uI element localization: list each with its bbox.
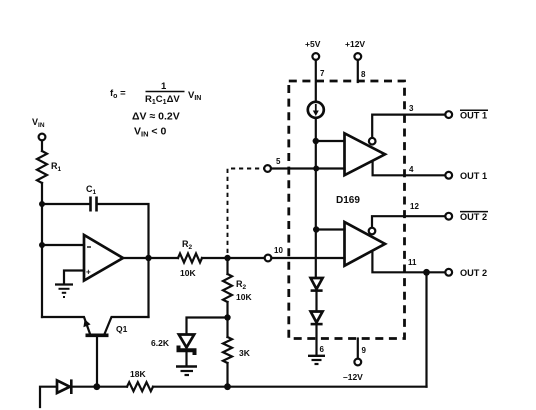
terminal OUT1bar <box>445 111 452 118</box>
wire to comp B input <box>316 228 344 230</box>
wire pin9 <box>357 339 359 359</box>
wire rail right <box>153 386 427 388</box>
wire between diodes <box>315 291 317 312</box>
svg-text:+: + <box>86 268 91 277</box>
wire diode to 18K <box>73 386 128 388</box>
node zener tap <box>224 314 230 320</box>
svg-text:8: 8 <box>361 70 366 79</box>
wire left rail down <box>41 183 43 317</box>
wire pin4 out <box>373 163 446 176</box>
wire C1 left <box>42 203 89 205</box>
resistor R1 <box>37 151 47 183</box>
terminal +12V <box>354 53 361 60</box>
diode D3 <box>311 278 323 289</box>
svg-text:VIN < 0: VIN < 0 <box>134 126 166 139</box>
node 3K on rail <box>224 383 231 390</box>
zener D2 6.2K <box>179 335 194 348</box>
wire node down to R2 vertical <box>226 258 228 274</box>
node Q1 base on rail <box>93 383 100 390</box>
wire output down to collector <box>147 258 149 317</box>
svg-text:5: 5 <box>276 157 281 166</box>
wire 3K to bottom rail <box>226 363 228 387</box>
wire VIN to R1 <box>41 140 43 151</box>
resistor R3 3K <box>223 337 232 363</box>
wire bottom rail <box>40 387 56 407</box>
svg-text:OUT 1: OUT 1 <box>460 111 487 121</box>
wire C1 right to feedback corner <box>99 204 149 255</box>
comparator U2B <box>345 222 386 266</box>
op-amp U1 <box>84 235 123 281</box>
current source I1 <box>308 102 324 118</box>
terminal 10 <box>265 255 272 262</box>
svg-text:7: 7 <box>320 69 325 78</box>
wire pin5 into box <box>271 167 345 169</box>
svg-text:OUT 2: OUT 2 <box>460 268 487 278</box>
wire to zener <box>187 318 228 334</box>
svg-text:3: 3 <box>409 104 414 113</box>
resistor R2 vertical <box>223 274 232 302</box>
terminal OUT2 <box>445 269 452 276</box>
wire +12V pin 8 <box>357 60 359 82</box>
node comparator A plus <box>313 138 319 144</box>
bubble U2B <box>369 228 376 235</box>
node comparator B plus <box>313 226 319 232</box>
svg-text:1: 1 <box>161 81 167 92</box>
node pin5 line crossing <box>313 166 319 172</box>
comparator U2A <box>345 133 386 175</box>
terminal VIN <box>39 134 46 141</box>
transistor Q1 emitter arrow <box>83 319 90 327</box>
svg-text:OUT 2: OUT 2 <box>460 212 487 222</box>
node C1 tap <box>39 201 45 207</box>
svg-text:6: 6 <box>320 345 325 354</box>
node opamp input tap <box>39 242 45 248</box>
wire R2v to node <box>226 302 228 337</box>
opamp minus mark <box>87 246 91 248</box>
bubble U2A <box>369 138 376 145</box>
diode D1 <box>57 380 70 393</box>
node opamp output <box>145 255 151 261</box>
resistor R2 horizontal <box>178 254 202 263</box>
svg-text:10K: 10K <box>236 292 252 302</box>
svg-text:6.2K: 6.2K <box>151 338 170 348</box>
ground chip <box>308 355 325 357</box>
wire Q1 base down <box>96 337 98 387</box>
terminal +5V <box>312 53 319 60</box>
svg-text:+5V: +5V <box>305 39 321 49</box>
node junction R2 <box>224 255 230 261</box>
svg-text:3K: 3K <box>239 348 251 358</box>
svg-text:10K: 10K <box>180 268 196 278</box>
terminal OUT2bar <box>445 213 452 220</box>
wire to comp A input <box>316 140 345 142</box>
diode D4 <box>311 312 323 323</box>
terminal OUT1 <box>445 172 452 179</box>
wire pin11 out <box>372 252 445 272</box>
wire noninverting input to ground <box>64 271 84 284</box>
wire pin10 into box <box>271 257 344 259</box>
svg-text:18K: 18K <box>130 369 146 379</box>
svg-text:+12V: +12V <box>345 39 365 49</box>
terminal 5 <box>264 165 271 172</box>
svg-text:D169: D169 <box>336 195 360 206</box>
svg-text:fo =: fo = <box>110 88 126 100</box>
chip D169 dashed box <box>289 81 405 339</box>
wire opamp inverting input <box>42 244 84 246</box>
ground zener <box>176 365 197 367</box>
svg-text:4: 4 <box>409 165 414 174</box>
wire collector arm <box>105 317 149 334</box>
capacitor C1 <box>89 197 92 212</box>
svg-text:–12V: –12V <box>343 372 363 382</box>
wire opamp output <box>123 257 178 259</box>
wire current source down <box>315 118 317 278</box>
transistor Q1 base bar <box>86 333 109 337</box>
wire zener to ground <box>185 352 187 366</box>
wire R2 to node10 <box>202 257 265 259</box>
svg-text:10: 10 <box>274 246 283 255</box>
ground opamp <box>55 283 73 285</box>
wire dashed link node to terminal5 <box>228 169 265 254</box>
node feedback tap <box>423 269 430 276</box>
resistor R4 18K <box>127 382 153 391</box>
svg-text:9: 9 <box>362 346 367 355</box>
wire pin12 out <box>372 216 445 228</box>
svg-text:ΔV ≈ 0.2V: ΔV ≈ 0.2V <box>132 111 180 123</box>
svg-text:12: 12 <box>410 202 419 211</box>
svg-text:11: 11 <box>408 258 417 267</box>
svg-text:Q1: Q1 <box>116 324 128 334</box>
wire pin3 out <box>372 115 445 138</box>
wire emitter arm <box>42 317 90 334</box>
wire +5V to current source <box>315 60 317 102</box>
wire rail up to OUT2 line <box>425 272 427 386</box>
wire pin6 to ground <box>315 324 317 355</box>
svg-text:OUT 1: OUT 1 <box>460 171 487 181</box>
terminal -12V <box>354 359 361 366</box>
